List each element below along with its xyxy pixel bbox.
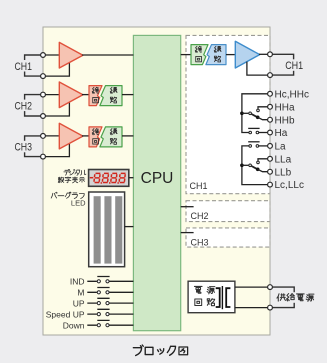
input channel CH2: bracket <box>13 95 44 116</box>
junction H common <box>240 112 244 116</box>
wire A2 to isolator <box>82 94 90 96</box>
junction L common <box>240 164 244 168</box>
svg-text:Lc,LLc: Lc,LLc <box>275 180 304 191</box>
switch SW2 M <box>77 288 133 298</box>
wire A1 to CPU <box>82 54 133 56</box>
output CH1 bracket <box>270 54 305 75</box>
panel right border over regions <box>269 27 271 335</box>
relay terminal labels <box>275 89 309 191</box>
changeover contact H: arm <box>252 114 257 117</box>
switch SW4 Speed UP <box>46 309 134 319</box>
wire A4 to terminal <box>259 53 270 55</box>
svg-text:Down: Down <box>63 320 85 330</box>
CPU U1 <box>133 35 180 330</box>
wire Ha to terminal <box>259 132 270 134</box>
svg-text:Ha: Ha <box>275 128 288 139</box>
power supply circuit PS1 (dengen kairo) <box>188 281 235 313</box>
label digital numeric display (dejitaru suuji hyouji) <box>58 169 86 183</box>
svg-text:CH3: CH3 <box>14 142 32 154</box>
svg-text:HHb: HHb <box>275 115 295 126</box>
wire CH3 input <box>43 135 59 137</box>
wire La to terminal <box>259 145 270 147</box>
terminal CH1 in + <box>41 53 46 58</box>
relay group L: common bus wire <box>242 146 270 185</box>
op-amp A2 (CH2 input amp) <box>59 82 83 108</box>
wire CH1 lower input <box>43 62 69 76</box>
op-amp A3 (CH3 input amp) <box>59 123 83 149</box>
svg-text:CH1: CH1 <box>285 60 303 72</box>
terminal CH2 in - <box>41 114 46 119</box>
wire LLa to terminal <box>258 159 270 161</box>
wire CPU to CH2 region <box>181 206 194 208</box>
transformer T1 <box>216 286 231 309</box>
bar graph LED DS2 <box>89 192 125 267</box>
dashed region CH1 output <box>186 35 270 193</box>
supply power bracket (kyoukyuu dengen) <box>270 287 315 308</box>
wire power + <box>235 286 270 288</box>
svg-text:CH1: CH1 <box>14 61 32 73</box>
contact HHa throw <box>257 109 260 112</box>
relay group H: common bus wire <box>242 94 270 133</box>
main panel <box>43 27 270 335</box>
terminal CH3 in - <box>41 154 46 159</box>
terminal power + <box>268 285 273 290</box>
wire isolator CH2 to CPU <box>122 94 133 96</box>
terminal CH1 out - <box>268 73 273 78</box>
wire power - <box>235 307 270 309</box>
terminal CH1 out + <box>268 52 273 57</box>
svg-text:CH1: CH1 <box>190 181 208 191</box>
junction HHb <box>256 116 260 120</box>
wire display to CPU <box>129 177 134 179</box>
wire bargraph to CPU <box>125 226 134 228</box>
switch SW5 Down <box>63 320 134 330</box>
terminal CH3 in + <box>41 134 46 139</box>
relay terminals Hc,HHc HHa HHb Ha La LLa LLb Lc,LLc <box>268 91 273 187</box>
svg-text:LED: LED <box>71 199 86 208</box>
wire CH2 lower input <box>43 102 69 116</box>
NO contact Ha <box>248 128 259 133</box>
svg-text:LLb: LLb <box>275 167 292 178</box>
junction LLb <box>256 168 260 172</box>
svg-text:CH2: CH2 <box>191 211 209 221</box>
switch SW1 IND <box>70 277 134 287</box>
svg-text:Hc,HHc: Hc,HHc <box>275 89 309 100</box>
svg-text:CH2: CH2 <box>14 100 32 112</box>
input channel CH1: bracket <box>13 55 44 76</box>
wire CPU to CH3 region <box>181 232 194 234</box>
svg-text:LLa: LLa <box>275 154 292 165</box>
svg-text:UP: UP <box>73 298 85 308</box>
terminal power - <box>268 305 273 310</box>
wire HHa to terminal <box>258 107 270 109</box>
wire LLb to terminal <box>258 169 270 171</box>
isolation circuit CH3 (zetsuen kairo) <box>89 127 122 147</box>
wire A3 to isolator <box>82 135 90 137</box>
wire HHb to terminal <box>258 117 270 119</box>
wire A4 lower output <box>247 62 270 76</box>
svg-text:Speed UP: Speed UP <box>46 309 85 319</box>
svg-text:CH3: CH3 <box>191 238 209 248</box>
wire CH3 lower input <box>43 143 69 156</box>
terminal CH1 in - <box>41 74 46 79</box>
changeover contact L: pole <box>249 164 252 167</box>
svg-text:CPU: CPU <box>141 170 174 187</box>
dashed region CH3 output <box>186 228 270 248</box>
wire CPU to output isolator <box>181 54 191 56</box>
digital display DS1 <box>89 170 129 187</box>
svg-text:La: La <box>275 142 287 153</box>
output isolation circuit CH1 <box>191 45 226 65</box>
contact LLa throw <box>257 161 260 164</box>
wire CH1 input <box>43 54 59 56</box>
changeover contact L: arm <box>252 166 257 169</box>
op-amp A1 (CH1 input amp) <box>59 42 83 68</box>
wire isolator to output amp <box>226 54 236 56</box>
isolation circuit CH2 (zetsuen kairo) <box>89 86 122 106</box>
switch SW3 UP <box>73 298 134 308</box>
terminal CH2 in + <box>41 92 46 97</box>
wire isolator CH3 to CPU <box>122 135 133 137</box>
wire H common to changeover <box>242 112 249 114</box>
wire L common to changeover <box>242 164 249 166</box>
wire CH2 input <box>43 94 59 96</box>
input channel CH3: bracket <box>13 136 44 157</box>
svg-text:M: M <box>77 288 84 298</box>
NO contact La <box>248 142 259 147</box>
label bar graph LED (baagurafu LED) <box>51 192 84 198</box>
caption block diagram (burokku zu) <box>133 345 187 355</box>
svg-text:IND: IND <box>70 277 85 287</box>
op-amp A4 (CH1 output amp) <box>235 41 259 68</box>
svg-text:HHa: HHa <box>275 102 295 113</box>
dashed region CH2 output <box>186 201 270 222</box>
changeover contact H: pole <box>249 112 252 115</box>
